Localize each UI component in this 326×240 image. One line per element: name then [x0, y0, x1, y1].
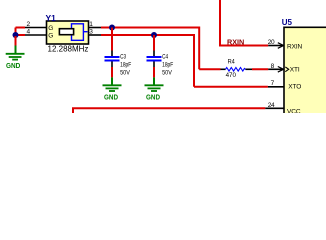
value 12.288MHz — [48, 45, 89, 54]
pin 2 — [25, 21, 47, 28]
svg-text:GND: GND — [104, 95, 118, 102]
svg-text:GND: GND — [6, 63, 20, 70]
label C4 — [162, 53, 173, 76]
svg-text:24: 24 — [268, 102, 275, 109]
pin name XTO — [288, 84, 301, 91]
wire — [16, 28, 26, 36]
net label RXIN — [227, 38, 244, 47]
svg-text:3: 3 — [89, 29, 93, 36]
resistor R4 — [221, 68, 253, 72]
pin name XTI — [285, 67, 300, 74]
pin 20 — [268, 39, 284, 48]
designator Y1 — [46, 13, 57, 23]
ground — [145, 77, 164, 101]
svg-text:1: 1 — [89, 21, 93, 28]
wire XTO row — [194, 86, 268, 88]
svg-text:R4: R4 — [228, 58, 236, 65]
node C4 junction — [151, 32, 157, 38]
designator U5 — [282, 18, 293, 27]
svg-text:12.288MHz: 12.288MHz — [48, 45, 89, 54]
pin 7 — [268, 80, 284, 87]
node C3 junction — [109, 25, 115, 31]
pin 3 — [89, 29, 102, 36]
svg-text:RXIN: RXIN — [287, 44, 303, 51]
svg-text:XTI: XTI — [290, 67, 300, 74]
label R4 — [228, 58, 236, 65]
IC U5 — [284, 27, 326, 127]
wire — [153, 35, 155, 51]
wire upper — [101, 28, 199, 70]
svg-text:50V: 50V — [120, 69, 130, 76]
svg-text:C4: C4 — [162, 53, 168, 60]
capacitor C4 — [147, 51, 162, 68]
svg-text:470: 470 — [226, 72, 237, 79]
pin 4 — [25, 29, 47, 36]
svg-text:7: 7 — [271, 80, 275, 87]
wire VCC — [73, 108, 265, 113]
pin 1 — [89, 21, 102, 28]
wire lower — [101, 35, 194, 87]
pin name RXIN — [287, 44, 303, 51]
svg-text:2: 2 — [27, 21, 31, 28]
value 470 — [226, 72, 237, 79]
pin name VCC — [287, 109, 301, 116]
svg-text:18pF: 18pF — [162, 61, 173, 68]
svg-text:U5: U5 — [282, 18, 293, 27]
wire — [111, 67, 113, 77]
svg-text:20: 20 — [268, 39, 275, 46]
svg-text:8: 8 — [271, 63, 275, 70]
wire — [153, 67, 155, 77]
label C3 — [120, 53, 131, 76]
svg-text:VCC: VCC — [287, 109, 301, 113]
crystal Y1 — [47, 21, 89, 44]
ground — [103, 77, 122, 101]
wire XTI row — [199, 68, 220, 70]
svg-text:RXIN: RXIN — [227, 38, 244, 47]
wire RXIN vertical — [220, 0, 268, 46]
svg-text:G: G — [48, 25, 53, 32]
svg-text:G: G — [48, 33, 53, 40]
svg-text:Y1: Y1 — [46, 13, 57, 23]
ground — [6, 46, 25, 71]
svg-text:C3: C3 — [120, 53, 126, 60]
capacitor C3 — [105, 51, 120, 68]
svg-text:GND: GND — [146, 95, 160, 102]
svg-text:4: 4 — [27, 29, 31, 36]
wire — [111, 28, 113, 51]
node left junction — [13, 32, 19, 38]
pin 8 — [268, 63, 284, 72]
svg-text:18pF: 18pF — [120, 61, 131, 68]
wire — [15, 36, 17, 46]
pin 24 — [265, 102, 284, 109]
wire — [252, 68, 268, 70]
svg-text:XTO: XTO — [288, 84, 301, 91]
svg-text:50V: 50V — [162, 69, 172, 76]
